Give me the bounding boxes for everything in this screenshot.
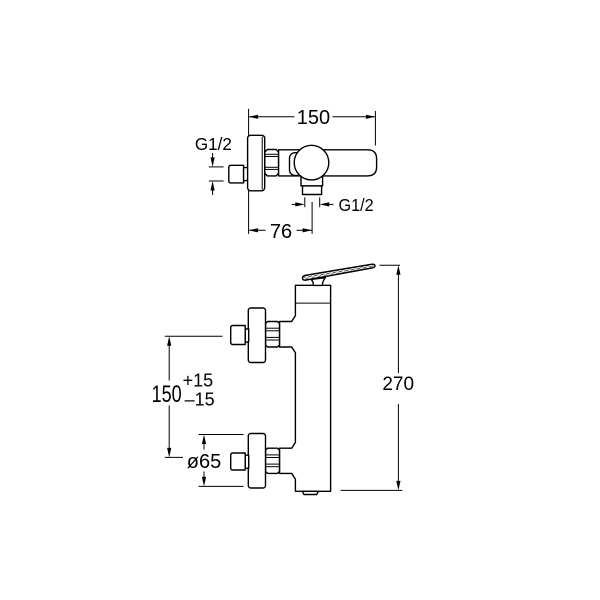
svg-text:G1/2: G1/2 [195, 134, 232, 155]
aerator at body bottom [302, 491, 318, 494]
hand shower blade mesh [302, 264, 375, 280]
handle knob circle [294, 145, 329, 180]
dimension line 150 [249, 116, 295, 118]
extension line outlet centre for 76 [311, 202, 313, 234]
arrow left of 76 [249, 228, 259, 232]
150 tolerance dim extension line top [165, 335, 223, 337]
nipple dim extension line top [209, 166, 224, 168]
wall inlet nipple [229, 165, 244, 183]
nipple dim arrow down [212, 153, 214, 159]
upper escutcheon [248, 308, 265, 363]
arrow up 150 tol [167, 336, 171, 346]
nut ridge lines [265, 153, 279, 155]
lower nipple collar [245, 455, 249, 468]
svg-text:76: 76 [270, 221, 292, 243]
arrow down 150 tol [167, 448, 171, 458]
connection nut (threaded) [265, 150, 279, 176]
extension line left of 150 dim (above plate) [248, 109, 250, 136]
dimension line 76 [249, 229, 266, 231]
nipple dim extension line bottom [209, 180, 224, 182]
arrow right of 150 [366, 115, 376, 119]
outlet G1/2 extension line left [304, 197, 306, 207]
nipple collar strip [244, 168, 248, 181]
upper nipple [231, 326, 246, 345]
wall plate face line [261, 137, 263, 190]
svg-text:+15: +15 [183, 370, 214, 390]
svg-text:ø65: ø65 [187, 451, 221, 473]
outlet upper block [301, 170, 323, 186]
shower holder [311, 278, 325, 286]
outlet G1/2 extension line right [319, 197, 321, 207]
270 dim line [397, 275, 399, 374]
spout body horizontal [279, 150, 377, 176]
150 tolerance dim extension line bottom [165, 456, 183, 458]
lower nipple [231, 453, 246, 470]
arrow down 270 [396, 481, 400, 491]
extension line left below plate (shared by 76 dim) [248, 191, 250, 234]
nipple dim arrow up [212, 189, 214, 195]
upper connection nut [266, 322, 280, 348]
body cover line [295, 302, 330, 304]
upper nipple collar [245, 329, 249, 342]
hand shower blade white base [302, 264, 375, 280]
valve housing behind knob [290, 153, 312, 176]
270 extension line top [380, 264, 401, 266]
svg-text:270: 270 [382, 374, 414, 395]
dia65 extension line bottom [199, 485, 244, 487]
lower escutcheon [248, 434, 265, 489]
arrow left of 150 [249, 115, 259, 119]
svg-text:–15: –15 [185, 389, 215, 409]
svg-text:150: 150 [297, 107, 330, 129]
270 extension line bottom [341, 489, 403, 491]
svg-text:G1/2: G1/2 [339, 195, 374, 215]
dia65 extension line top [199, 434, 244, 436]
svg-text:150: 150 [152, 381, 182, 407]
wall plate (escutcheon side view) [248, 135, 265, 191]
body main [280, 285, 331, 491]
outlet lower block [303, 186, 322, 195]
extension line right of 150 dim [374, 111, 376, 146]
arrow right of 76 [303, 228, 313, 232]
outlet G1/2 arrow left [292, 203, 298, 205]
arrow up 270 [396, 265, 400, 275]
150 tolerance dim line [168, 345, 170, 381]
lower connection nut [266, 448, 280, 473]
dia65 dim line + arrows [203, 444, 205, 450]
outlet G1/2 arrow right [327, 203, 333, 205]
